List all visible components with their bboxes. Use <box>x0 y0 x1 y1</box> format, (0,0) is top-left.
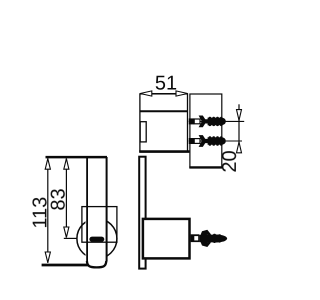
top view wall plate bottom thick edge <box>189 166 222 168</box>
front view arm right edge <box>106 157 108 261</box>
dimension 113 line <box>47 158 49 262</box>
dimension 83 extension line at lamp center <box>64 237 77 239</box>
front view lamp square housing <box>82 207 117 243</box>
dimension 51 line <box>140 93 188 95</box>
side view screw body <box>199 235 227 243</box>
top view housing bottom thick edge <box>139 150 189 153</box>
dimension 113 top arrow <box>45 159 50 170</box>
top view housing box <box>140 94 188 151</box>
svg-text:TOOD: TOOD <box>92 238 103 242</box>
screw anchor 1 centerline <box>189 120 244 122</box>
svg-text:51: 51 <box>155 72 177 94</box>
dimension 113 bottom arrow <box>45 252 50 263</box>
front view lamp circle <box>77 219 117 259</box>
dimension 51 left arrow <box>140 91 152 96</box>
side view screw ribs <box>203 234 221 243</box>
screw anchor 2 centerline <box>189 140 242 142</box>
side view screw fins <box>200 230 211 237</box>
dimension 83 bottom arrow <box>64 227 69 237</box>
bottom extension line <box>42 264 89 267</box>
screw anchor 1 <box>189 116 226 128</box>
svg-text:20: 20 <box>219 150 241 172</box>
dimension 20 bottom arrow <box>237 142 242 153</box>
dimension 83 line <box>65 158 67 237</box>
front view arm fill <box>86 156 108 261</box>
logo pill <box>89 237 104 242</box>
screw anchor 2 <box>189 135 226 147</box>
side view housing box <box>143 219 190 259</box>
top view left notch <box>140 122 146 142</box>
dimension 20 line <box>238 104 240 153</box>
front view arm left edge <box>86 157 88 261</box>
front view top thick line <box>46 156 108 159</box>
dimension 20 top arrow <box>237 110 242 121</box>
dimension 51 right arrow <box>176 91 188 96</box>
front view arm bottom cap <box>87 261 106 267</box>
top view wall plate <box>190 94 222 167</box>
top view housing internal seam line <box>140 110 188 112</box>
dimension 83 top arrow <box>64 159 69 170</box>
side view screw head <box>191 234 200 242</box>
side view wall plate <box>139 157 145 269</box>
svg-text:83: 83 <box>48 188 70 210</box>
